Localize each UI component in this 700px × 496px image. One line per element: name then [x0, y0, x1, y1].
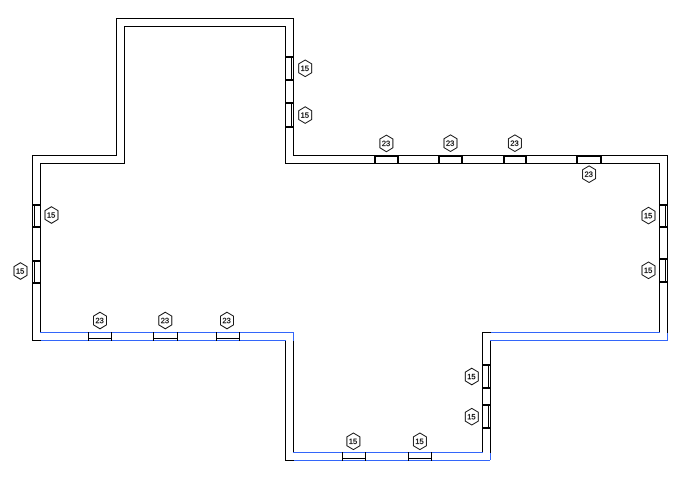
window type 15 left wall 2: [32, 260, 41, 284]
tag window tag 23 bottom-left wall 2: [159, 312, 172, 329]
tag window tag 23 top wall 2: [444, 135, 457, 152]
wire left wall outer line: [32, 155, 33, 341]
wire projection bottom wall top line blue: [293, 452, 483, 453]
window type 23 top wall 2: [438, 155, 463, 164]
window type 23 top wall 1: [374, 155, 399, 164]
window type 15 projection bottom wall 2: [408, 452, 432, 461]
tag window tag 15 tower right wall 2: [299, 107, 312, 124]
tag window tag 23 bottom-left wall 3: [221, 312, 234, 329]
wire tower right wall outer line: [293, 18, 294, 156]
wire left wall bottom black cap: [32, 340, 41, 341]
wire right wall inner line: [659, 163, 660, 333]
tag window tag 23 top wall 1: [380, 135, 393, 152]
tag window tag 15 projection right wall 1: [465, 368, 478, 385]
window type 15 tower right wall 2: [285, 102, 294, 128]
window type 15 tower right wall 1: [285, 56, 294, 81]
tag window tag 15 right wall 1: [642, 207, 655, 224]
tag window tag 15 left wall 1: [45, 207, 58, 224]
wire top wall right section inner line: [285, 163, 660, 164]
window type 15 right wall 2: [659, 258, 668, 283]
wire top wall left section inner line: [40, 163, 125, 164]
wire bottom-left wall bottom line blue: [41, 340, 286, 341]
window type 23 bottom-left wall 2: [153, 332, 178, 341]
window type 15 projection bottom wall 1: [342, 452, 366, 461]
tag window tag 15 projection bottom wall 2: [413, 433, 426, 450]
wire bottom-left wall blue end stub: [293, 332, 294, 341]
window type 23 bottom-left wall 3: [216, 332, 240, 341]
tag window tag 15 tower right wall 1: [299, 60, 312, 77]
tag window tag 23 bottom-left wall 1: [94, 312, 107, 329]
wire tower left wall outer line: [116, 18, 117, 156]
tag window tag 23 top wall 3: [508, 135, 521, 152]
tag window tag 15 right wall 2: [642, 262, 655, 279]
wire tower left wall inner line: [124, 26, 125, 164]
wire top wall left section outer line: [32, 155, 117, 156]
wire projection right wall top black cap: [482, 332, 491, 333]
wire bottom-right wall blue end stub: [667, 333, 668, 340]
wire projection right wall outer line: [490, 340, 491, 453]
wire projection bottom wall bottom line blue: [294, 460, 490, 461]
wire bottom-right wall top line blue: [491, 332, 660, 333]
tag window tag 15 projection bottom wall 1: [347, 433, 360, 450]
window type 15 left wall 1: [32, 204, 41, 228]
wire projection left wall outer line: [285, 340, 286, 461]
wire tower top wall outer line: [116, 18, 294, 19]
wire top wall right section outer line: [293, 155, 668, 156]
wire bottom-left wall top line blue: [40, 332, 294, 333]
wire projection bottom wall blue end stub: [490, 453, 491, 460]
window type 15 projection right wall 1: [482, 364, 491, 389]
tag window tag 23 top wall 4: [583, 166, 596, 183]
window type 23 bottom-left wall 1: [88, 332, 112, 341]
wire projection right wall inner line: [482, 332, 483, 453]
window type 15 projection right wall 2: [482, 404, 491, 429]
wire tower right wall inner line: [285, 26, 286, 164]
wire projection bottom wall black cap: [285, 460, 294, 461]
wire projection left wall inner line: [293, 341, 294, 453]
tag window tag 15 left wall 2: [14, 263, 27, 280]
wire bottom-right wall bottom line blue: [490, 340, 668, 341]
window type 23 top wall 4: [576, 155, 602, 164]
wire right wall outer line: [667, 155, 668, 333]
wire left wall inner line: [40, 163, 41, 333]
window type 15 right wall 1: [659, 204, 668, 228]
tag window tag 15 projection right wall 2: [465, 408, 478, 425]
wire tower top wall inner line: [124, 26, 286, 27]
window type 23 top wall 3: [503, 155, 527, 164]
